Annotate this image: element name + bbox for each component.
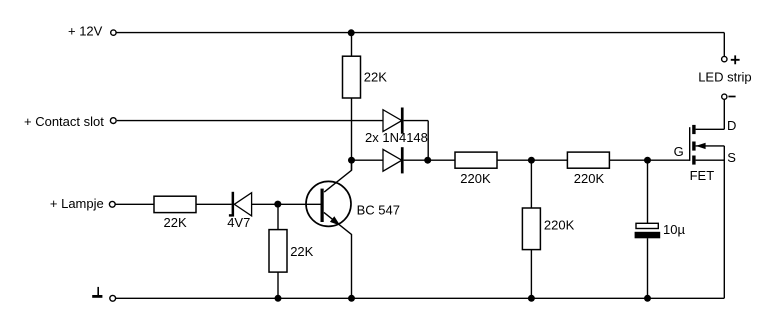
svg-text:G: G [674,144,684,159]
wire bottom ground rail [116,297,724,299]
wire node A to D2 [352,159,384,161]
terminal LED strip minus [722,94,727,99]
svg-text:D: D [727,118,736,133]
node junction diode branch rejoin [424,157,431,164]
transistor Q1 BC 547 [306,181,351,226]
zener diode Z1 4V7 [229,192,252,217]
node junction top rail R1 [348,29,355,36]
wire Q1 emitter [324,212,352,298]
wire lampje to R2 [115,203,154,205]
wire D1 branch down [427,121,429,161]
capacitor C1 10u [635,223,661,238]
wire C1 top lead [647,160,649,223]
wire FET source horizontal [696,159,725,161]
wire zener to base [252,203,322,205]
node junction R6-C1 gate [644,157,651,164]
wire R5 bottom lead [530,250,532,299]
transistor FET [690,125,706,165]
node junction rail R3 [275,295,282,302]
wire R1 top lead [351,33,353,57]
svg-text:FET: FET [690,168,715,183]
resistor R4 220K [455,152,497,168]
wire FET drain to LED strip minus [723,99,725,129]
node junction R4-R5 [528,157,535,164]
resistor R6 220K [567,152,609,168]
svg-text:BC 547: BC 547 [357,202,400,217]
wire R3 bottom lead [277,272,279,298]
svg-text:4V7: 4V7 [227,215,250,230]
node junction rail R5 [528,295,535,302]
wire Q1 collector [324,160,351,192]
svg-text:10µ: 10µ [663,222,685,237]
resistor R2 22K [154,196,196,212]
wire D1 output [404,120,429,122]
resistor R3 22K [269,230,287,273]
svg-text:2x 1N4148: 2x 1N4148 [365,130,428,145]
node junction zener-R3 [274,201,281,208]
wire top +12V rail [116,32,724,34]
resistor R5 220K [522,208,540,250]
diode D2 1N4148 [383,147,404,173]
label minus sign [728,96,735,98]
svg-text:22K: 22K [364,70,387,85]
node junction rail C1 [644,295,651,302]
wire R3 top lead [277,204,279,229]
svg-text:220K: 220K [574,171,605,186]
node junction rail emitter [348,295,355,302]
wire LED strip + drop [723,33,725,57]
label plus sign [731,55,740,64]
terminal ground [110,295,116,301]
wire R2 to zener [196,203,232,205]
wire R5 top lead [530,160,532,208]
svg-text:+ Lampje: + Lampje [50,196,104,211]
svg-text:S: S [727,150,736,165]
wire FET source down to rail [723,146,725,298]
svg-text:+ 12V: + 12V [68,24,103,39]
wire R1 bottom lead to collector [351,98,353,170]
svg-text:220K: 220K [460,171,491,186]
svg-text:+ Contact slot: + Contact slot [24,114,104,129]
svg-text:LED strip: LED strip [698,69,751,84]
svg-text:22K: 22K [290,244,313,259]
wire R4 to R6 [497,159,567,161]
terminal LED strip plus [722,56,727,61]
diode D1 1N4148 [383,108,404,134]
terminal contact slot [110,118,116,124]
resistor R1 22K [343,56,361,98]
wire R6 to FET gate [609,159,689,161]
svg-text:220K: 220K [544,217,575,232]
wire FET drain horizontal [696,128,725,130]
wire D2 to R4 [404,159,455,161]
wire C1 bottom lead [647,238,649,298]
wire contact slot line [117,120,383,122]
terminal +12V [111,30,116,35]
svg-text:22K: 22K [164,215,187,230]
node junction A collector-diode [348,157,355,164]
ground symbol [92,287,102,297]
terminal lampje [109,201,115,207]
wire FET body horizontal [696,145,725,147]
